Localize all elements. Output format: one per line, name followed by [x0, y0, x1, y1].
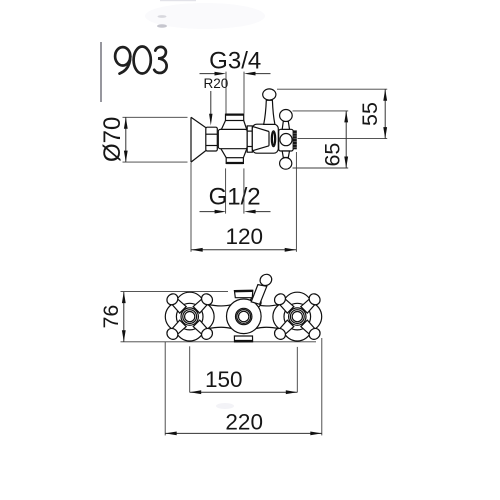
svg-text:76: 76	[99, 305, 123, 329]
svg-text:R20: R20	[204, 76, 229, 91]
svg-text:55: 55	[358, 102, 382, 126]
svg-text:Ø70: Ø70	[99, 117, 126, 162]
svg-text:220: 220	[225, 410, 263, 435]
svg-text:150: 150	[205, 367, 243, 392]
svg-text:65: 65	[320, 143, 344, 167]
svg-text:G1/2: G1/2	[209, 183, 261, 210]
svg-text:G3/4: G3/4	[209, 47, 261, 74]
svg-text:120: 120	[226, 224, 264, 249]
